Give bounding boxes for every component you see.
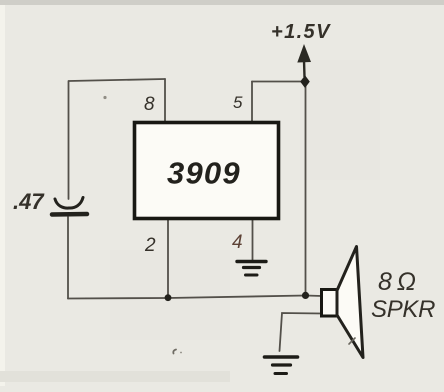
node: pin2 junction dot xyxy=(165,294,172,301)
svg-text:.47: .47 xyxy=(13,189,45,214)
wire: bottom horizontal from capacitor to speaker xyxy=(68,296,322,299)
capacitor C1 straight plate xyxy=(52,212,87,217)
svg-text:5: 5 xyxy=(233,93,243,112)
svg-text:+1.5V: +1.5V xyxy=(271,21,331,43)
wire: capacitor lower lead xyxy=(67,217,69,299)
node: speaker rail junction dot xyxy=(302,292,309,299)
node: +1.5V junction (diamond) xyxy=(300,75,310,88)
capacitor C1 .47 curved plate xyxy=(55,198,83,209)
ground GND1 (pin 4) xyxy=(237,262,266,276)
svg-text:SPKR: SPKR xyxy=(371,296,435,323)
wire: pin 4 stub to ground xyxy=(252,219,254,261)
svg-text:3909: 3909 xyxy=(167,156,241,191)
speaker SPKR cone xyxy=(337,247,363,358)
wire: top-left horizontal from pin 8 to left rail xyxy=(69,79,165,81)
svg-text:8 Ω: 8 Ω xyxy=(378,268,416,296)
wire: pin 8 stub xyxy=(164,79,166,122)
op IC U1 LM3909 box xyxy=(135,123,279,219)
svg-text:8: 8 xyxy=(144,94,155,115)
power symbol +1.5V arrow xyxy=(297,44,311,77)
svg-text:2: 2 xyxy=(144,235,156,256)
ground GND2 (speaker) xyxy=(265,357,298,374)
wire: right vertical rail from junction down to speaker wire xyxy=(305,82,307,296)
svg-text:4: 4 xyxy=(232,232,243,253)
wire: pin 5 stub xyxy=(251,82,253,123)
stray mark near cone xyxy=(349,338,355,344)
stray speck near pin 8 xyxy=(103,96,106,99)
speaker SPKR driver rectangle xyxy=(322,290,338,317)
wire: pin 2 stub down to bottom wire xyxy=(167,219,169,298)
stray smudge bottom-left xyxy=(173,350,176,354)
wire: top-right horizontal from pin 5 to +1.5V junction xyxy=(252,81,305,83)
wire: left vertical rail down to capacitor xyxy=(68,81,70,199)
wire: speaker bottom terminal to ground xyxy=(280,313,323,351)
